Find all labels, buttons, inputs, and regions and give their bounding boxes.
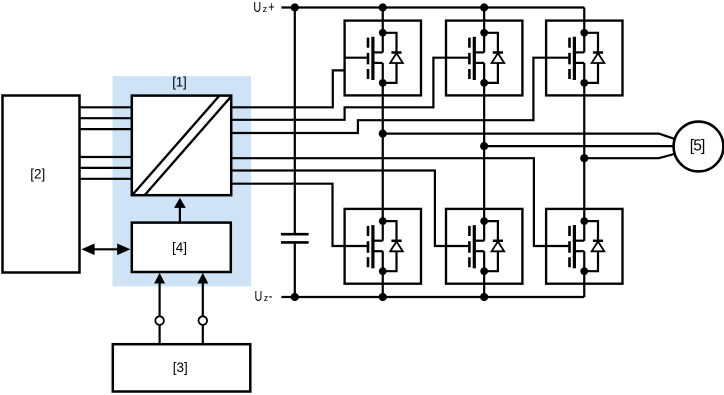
junction dots inside module Q1	[379, 29, 387, 87]
motor M1 [5]	[674, 122, 724, 172]
junction dots inside module Q4	[379, 217, 387, 275]
svg-text:z: z	[263, 4, 268, 14]
wire gate net C: [1] pin3 to top module Q3	[232, 58, 547, 133]
transistor Q6 (MOSFET)	[546, 225, 584, 268]
wire gate net B: [1] pin2 to top module Q2	[232, 58, 447, 120]
junction dots inside module Q5	[480, 217, 488, 275]
junction dots on Uz- rail	[291, 293, 489, 301]
transistor Q1 (MOSFET)	[345, 37, 383, 80]
svg-text:[2]: [2]	[30, 167, 45, 182]
capacitor C1 dc-link	[281, 8, 309, 298]
box [1] gate driver / converter U1 with double diagonal	[132, 74, 231, 195]
diode D of Q1 (freewheel)	[383, 33, 403, 83]
junction dots inside module Q6	[580, 217, 588, 275]
svg-text:U: U	[253, 0, 261, 15]
junction dots inside module Q3	[580, 29, 588, 87]
wire gate net D: [1] pin4 to bottom module Q6	[232, 158, 547, 246]
switch module Q1 top phase U: box	[345, 21, 421, 96]
transistor Q4 (MOSFET)	[345, 225, 383, 268]
wire phase W to motor	[584, 154, 674, 158]
wire phase V column 2 vertical	[483, 8, 485, 298]
wire harness [2]-[1] (6 signal lines)	[79, 107, 132, 179]
net Uz- rail	[281, 296, 584, 298]
svg-text:U: U	[255, 287, 263, 304]
wire gate net A: [1] pin1 to top module Q1	[232, 70, 345, 107]
double-headed arrow [2]-[4]	[81, 244, 130, 256]
label Uz+	[253, 0, 274, 15]
wire phase V to motor	[484, 145, 673, 147]
box [3] U3	[113, 344, 251, 391]
svg-text:z: z	[264, 293, 269, 303]
wire phase W column 3 vertical	[583, 8, 585, 298]
wire phase U column 1 vertical	[382, 8, 384, 298]
junction dots phase taps	[379, 130, 589, 163]
wire phase U to motor	[383, 134, 675, 139]
switch module Q3 top phase W: box	[546, 21, 622, 96]
arrow [3] to [4] right with connector circle	[197, 273, 208, 344]
box [2] controller U2	[3, 96, 80, 273]
junction dots inside module Q2	[480, 29, 488, 87]
transistor Q5 (MOSFET)	[446, 225, 484, 268]
transistor Q2 (MOSFET)	[446, 37, 484, 80]
arrow [4] to [1]	[174, 198, 186, 223]
switch module Q4 bottom phase U: box	[345, 209, 421, 284]
svg-text:[1]: [1]	[172, 74, 187, 89]
driver-stage highlight region (light blue)	[113, 76, 252, 286]
box [4] U4	[132, 223, 231, 272]
svg-text:+: +	[268, 0, 274, 15]
switch module Q2 top phase V: box	[446, 21, 522, 96]
diode D of Q6 (freewheel)	[584, 221, 604, 271]
svg-text:[5]: [5]	[690, 137, 706, 154]
arrow [3] to [4] left with connector circle	[154, 273, 165, 344]
svg-text:[4]: [4]	[172, 240, 187, 255]
svg-text:-: -	[269, 287, 273, 304]
net Uz+ rail	[281, 6, 584, 8]
diode D of Q3 (freewheel)	[584, 33, 604, 83]
diode D of Q5 (freewheel)	[484, 221, 504, 271]
svg-text:[3]: [3]	[173, 360, 188, 375]
label Uz-	[255, 287, 273, 304]
switch module Q6 bottom phase W: box	[546, 209, 622, 284]
transistor Q3 (MOSFET)	[546, 37, 584, 80]
junction dots on Uz+ rail	[291, 3, 489, 11]
switch module Q5 bottom phase V: box	[446, 209, 522, 284]
wire gate net E: [1] pin5 to bottom module Q5	[232, 171, 447, 247]
wire gate net F: [1] pin6 to bottom module Q4	[232, 184, 345, 246]
diode D of Q4 (freewheel)	[383, 221, 403, 271]
diode D of Q2 (freewheel)	[484, 33, 504, 83]
